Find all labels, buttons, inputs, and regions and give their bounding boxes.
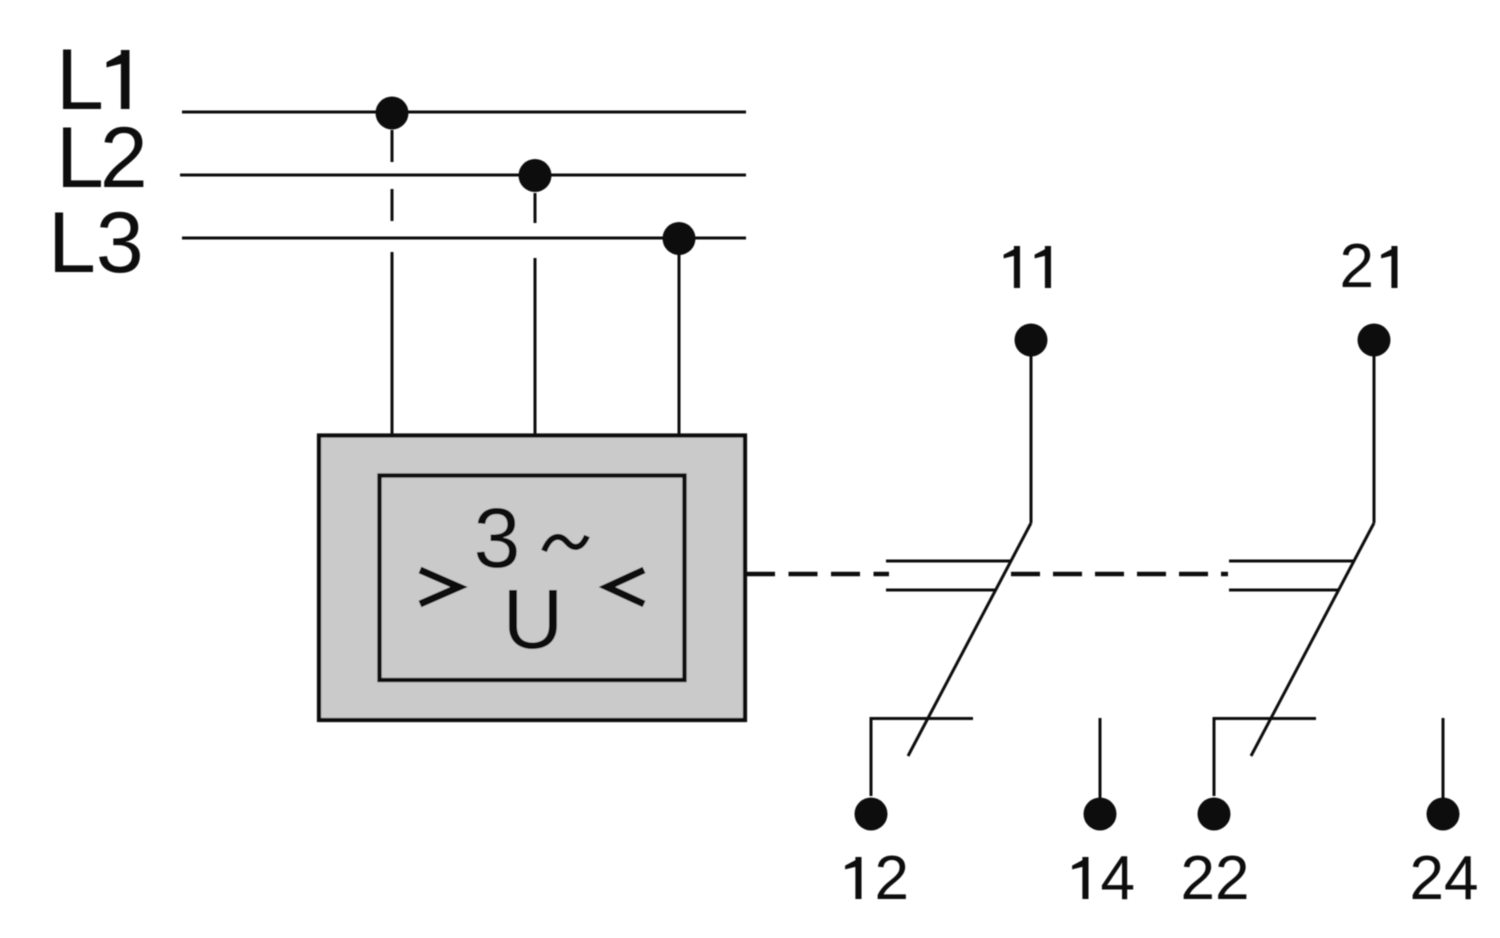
svg-text:L3: L3 (48, 195, 144, 291)
svg-text:L2: L2 (56, 110, 144, 206)
svg-text:24: 24 (1410, 844, 1479, 913)
svg-text:3: 3 (474, 491, 521, 585)
svg-text:4: 4 (1101, 844, 1135, 913)
svg-text:22: 22 (1181, 844, 1250, 913)
svg-text:2: 2 (875, 844, 909, 913)
svg-text:2: 2 (1340, 232, 1374, 301)
svg-text:U: U (503, 572, 564, 666)
